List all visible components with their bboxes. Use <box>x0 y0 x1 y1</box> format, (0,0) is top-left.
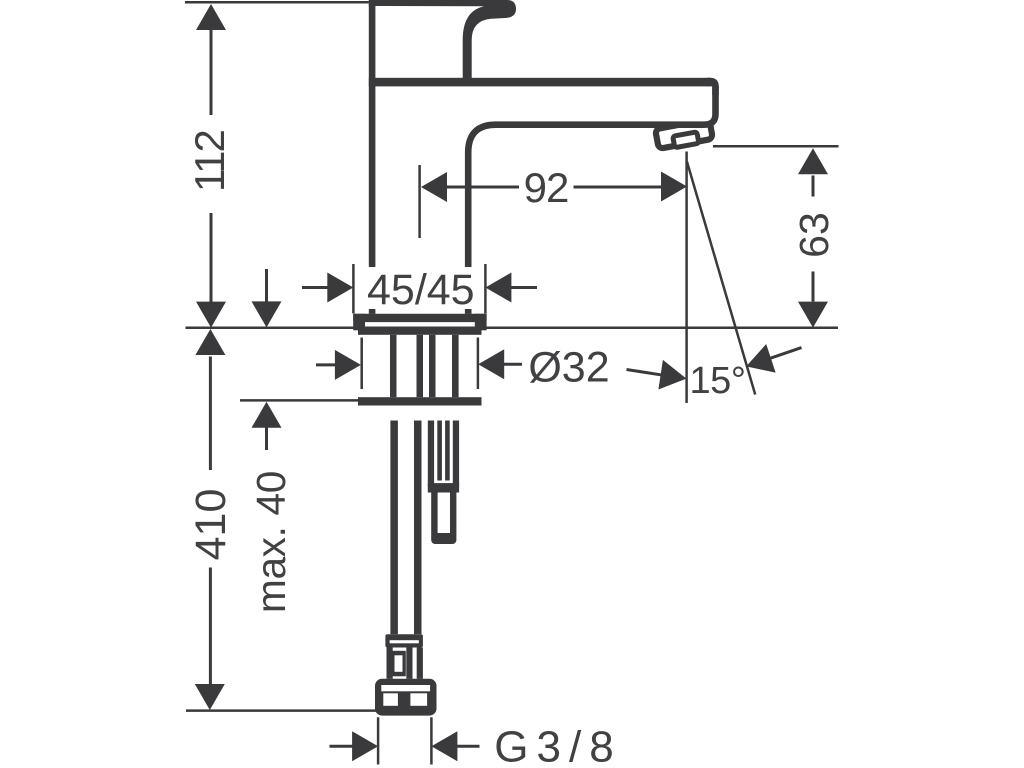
svg-text:45/45: 45/45 <box>367 266 475 314</box>
svg-text:G3/8: G3/8 <box>494 723 621 768</box>
svg-text:63: 63 <box>791 212 837 258</box>
svg-text:92: 92 <box>524 164 569 211</box>
svg-text:Ø32: Ø32 <box>528 344 609 392</box>
svg-text:410: 410 <box>187 489 235 561</box>
svg-text:15°: 15° <box>690 360 746 402</box>
svg-text:112: 112 <box>186 130 233 192</box>
svg-text:max. 40: max. 40 <box>248 471 294 613</box>
